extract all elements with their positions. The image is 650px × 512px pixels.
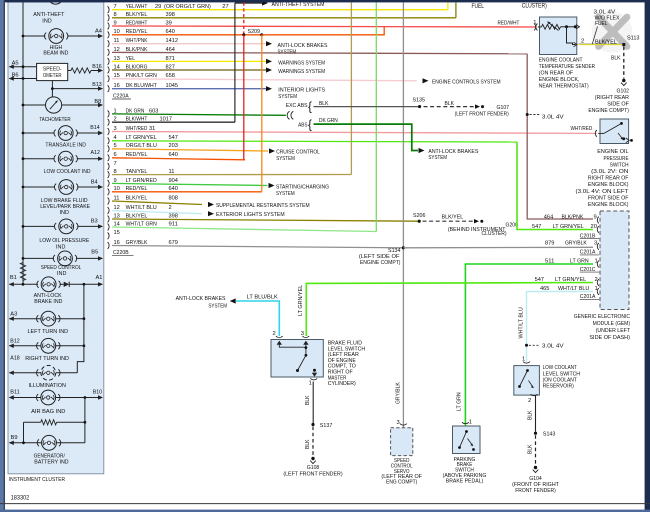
svg-text:3.0L 4V: 3.0L 4V [542,344,564,350]
svg-text:ANTI-LOCK BRAKES: ANTI-LOCK BRAKES [176,296,226,302]
svg-text:BLK/PNK: BLK/PNK [562,214,584,220]
svg-text:S143: S143 [543,431,556,437]
svg-text:C220A: C220A [113,94,129,100]
svg-text:B11: B11 [10,390,19,396]
svg-text:IND: IND [57,271,66,277]
svg-text:BLK/YEL: BLK/YEL [442,214,465,220]
svg-text:27: 27 [222,4,228,10]
svg-text:ENGINE BLOCK): ENGINE BLOCK) [588,182,629,188]
svg-text:CRUISE CONTROL: CRUISE CONTROL [276,150,320,156]
svg-text:{: { [308,120,312,132]
svg-text:RIGHT TURN IND: RIGHT TURN IND [25,356,69,362]
svg-text:S137: S137 [320,423,333,429]
svg-text:B10: B10 [93,390,102,396]
svg-text:1: 1 [469,420,472,426]
svg-text:ABS: ABS [298,122,308,128]
svg-text:A3: A3 [10,311,17,317]
svg-text:ANTI-THEFT: ANTI-THEFT [33,12,65,18]
svg-text:{: { [308,102,312,114]
svg-text:LT GRN: LT GRN [457,392,463,411]
svg-text:SYSTEM: SYSTEM [276,156,295,162]
svg-text:PRESSURE: PRESSURE [604,156,629,162]
svg-text:GENERIC ELECTRONIC: GENERIC ELECTRONIC [574,314,630,320]
svg-text:ILLUMINATION: ILLUMINATION [29,383,66,389]
svg-text:OMETER: OMETER [43,73,62,79]
svg-text:C220B: C220B [113,250,129,256]
svg-text:3: 3 [397,420,400,426]
svg-text:603: 603 [149,108,158,114]
svg-text:LT GRN/RED: LT GRN/RED [126,178,157,184]
svg-text:3: 3 [301,331,304,337]
svg-text:IND: IND [42,19,51,25]
svg-text:ENGINE COMPT): ENGINE COMPT) [588,108,629,114]
svg-text:B6: B6 [12,72,19,78]
svg-text:B5: B5 [91,249,98,255]
svg-text:398: 398 [169,213,178,219]
svg-text:BEAM IND: BEAM IND [43,51,68,57]
svg-text:S209: S209 [248,29,261,35]
svg-text:LOW COOLANT: LOW COOLANT [543,365,578,371]
svg-text:SYSTEM: SYSTEM [428,155,447,161]
svg-text:WARNINGS SYSTEM: WARNINGS SYSTEM [278,61,325,67]
svg-text:WHT/LT BLU: WHT/LT BLU [126,205,157,211]
svg-text:GRY/BLK: GRY/BLK [565,241,587,247]
svg-text:B13: B13 [92,82,101,88]
svg-text:LEVEL SWITCH: LEVEL SWITCH [543,371,580,377]
svg-text:464: 464 [544,214,554,220]
svg-text:679: 679 [169,240,178,246]
svg-text:2: 2 [595,277,598,283]
svg-text:B3: B3 [91,219,98,225]
svg-text:ANTI-THEFT SYSTEM: ANTI-THEFT SYSTEM [272,2,325,8]
svg-text:ENGINE OIL: ENGINE OIL [597,149,628,155]
svg-text:G107: G107 [497,105,510,111]
svg-text:2: 2 [169,205,172,211]
svg-text:RESERVOIR): RESERVOIR) [543,384,574,390]
svg-text:EXTERIOR LIGHTS SYSTEM: EXTERIOR LIGHTS SYSTEM [216,212,285,218]
svg-text:LT GRN/YEL: LT GRN/YEL [298,285,304,316]
svg-text:A18: A18 [10,356,19,362]
svg-text:A5: A5 [12,61,19,67]
svg-text:B1: B1 [10,275,17,281]
svg-text:NEAR THERMOSTAT): NEAR THERMOSTAT) [539,84,589,90]
svg-text:BLK: BLK [445,101,455,107]
svg-text:BLK/YEL: BLK/YEL [595,39,618,45]
svg-text:LOW OIL PRESSURE: LOW OIL PRESSURE [39,238,89,244]
svg-text:TEMPERATURE SENDER: TEMPERATURE SENDER [539,64,595,70]
svg-text:LOW COOLANT IND: LOW COOLANT IND [44,169,91,175]
svg-text:B9: B9 [11,435,18,441]
svg-text:ANTI-LOCK BRAKES: ANTI-LOCK BRAKES [278,43,328,49]
svg-text:WHT/LT GRN: WHT/LT GRN [126,221,157,227]
svg-text:(LEFT FRONT FENDER): (LEFT FRONT FENDER) [455,112,509,118]
svg-text:SYSTEM: SYSTEM [276,191,295,197]
svg-text:(ON COOLANT: (ON COOLANT [543,378,578,384]
svg-text:TACHOMETER: TACHOMETER [39,117,70,123]
svg-text:(ON REAR OF: (ON REAR OF [539,71,574,77]
svg-text:INSTRUMENT CLUSTER: INSTRUMENT CLUSTER [9,477,65,483]
svg-text:CLUSTER): CLUSTER) [482,231,507,237]
svg-text:SIDE OF: SIDE OF [607,102,629,108]
svg-text:7: 7 [114,161,117,167]
svg-text:808: 808 [169,195,178,201]
svg-text:MODULE (GEM): MODULE (GEM) [593,321,631,327]
svg-text:BATTERY IND: BATTERY IND [34,459,68,465]
svg-text:WARNINGS SYSTEM: WARNINGS SYSTEM [278,69,325,75]
svg-text:ORG/LT BLU: ORG/LT BLU [126,143,157,149]
svg-text:A4: A4 [95,28,102,34]
svg-text:STARTING/CHARGING: STARTING/CHARGING [276,185,329,191]
svg-text:BLK/YEL: BLK/YEL [126,195,148,201]
svg-text:BRAKE IND: BRAKE IND [34,299,62,305]
svg-text:B12: B12 [10,338,19,344]
svg-text:A1: A1 [96,275,103,281]
svg-text:3: 3 [594,241,597,247]
svg-text:B16: B16 [92,64,101,70]
svg-text:640: 640 [169,152,178,158]
svg-text:G102: G102 [617,88,630,94]
svg-text:IND: IND [60,210,69,216]
svg-text:(3.0L 4V: ON LEFT: (3.0L 4V: ON LEFT [576,189,630,195]
svg-text:GRY/BLK: GRY/BLK [396,382,402,404]
svg-text:B8: B8 [94,99,101,105]
svg-text:G104: G104 [529,476,542,482]
svg-text:(LEFT FRONT FENDER): (LEFT FRONT FENDER) [283,471,342,477]
svg-text:1: 1 [309,380,312,386]
svg-text:SYSTEM: SYSTEM [278,49,297,55]
svg-text:(OR ORG/LT GRN): (OR ORG/LT GRN) [164,4,211,10]
svg-text:658: 658 [166,73,175,79]
svg-text:RED/YEL: RED/YEL [126,152,148,158]
svg-text:(UNDER LEFT: (UNDER LEFT [596,328,631,334]
svg-text:3.0L 4V: 3.0L 4V [542,115,564,121]
svg-text:SYSTEM: SYSTEM [208,303,227,309]
svg-text:(3.0L 2V: ON: (3.0L 2V: ON [591,169,628,175]
svg-text:SIDE OF DASH): SIDE OF DASH) [589,335,630,341]
svg-text:203: 203 [169,143,178,149]
svg-text:ENGINE BLOCK): ENGINE BLOCK) [588,202,629,208]
svg-text:1: 1 [595,286,598,292]
svg-text:FUEL: FUEL [595,21,608,27]
svg-text:WHT/LT BLU: WHT/LT BLU [518,307,524,338]
svg-text:BRAKE PEDAL): BRAKE PEDAL) [446,478,483,484]
svg-text:WHT/RED: WHT/RED [571,126,593,132]
svg-text:EXC ABS: EXC ABS [286,103,308,109]
svg-text:2: 2 [528,398,531,404]
svg-text:RED/WHT: RED/WHT [498,20,520,26]
svg-text:ENGINE COMPT): ENGINE COMPT) [360,260,401,266]
svg-text:G108: G108 [307,465,320,471]
svg-text:464: 464 [166,47,175,53]
svg-text:2: 2 [273,331,276,337]
svg-text:LT BLU/BLK: LT BLU/BLK [247,294,278,300]
svg-text:BLK: BLK [305,439,311,449]
svg-text:ENGINE BLOCK,: ENGINE BLOCK, [539,77,580,83]
svg-text:BLK: BLK [528,444,534,454]
svg-text:2: 2 [581,38,584,44]
svg-text:SYSTEM: SYSTEM [278,94,297,100]
svg-text:S206: S206 [413,213,426,219]
svg-text:AIR BAG IND: AIR BAG IND [31,409,65,415]
svg-text:SWITCH: SWITCH [610,162,629,168]
svg-text:TRANSAXLE IND: TRANSAXLE IND [45,142,86,148]
svg-text:879: 879 [545,241,554,247]
svg-text:B4: B4 [91,179,98,185]
svg-text:ENGINE CONTROLS SYSTEM: ENGINE CONTROLS SYSTEM [432,80,501,86]
svg-text:183302: 183302 [11,495,30,501]
svg-text:9: 9 [594,214,597,220]
svg-text:911: 911 [169,221,178,227]
svg-text:ENG COMPT): ENG COMPT) [386,480,417,486]
svg-text:S135: S135 [413,98,426,104]
svg-text:15: 15 [114,230,120,236]
svg-text:RIGHT REAR OF: RIGHT REAR OF [588,176,629,182]
svg-text:BLK: BLK [611,56,621,62]
svg-text:547: 547 [169,135,178,141]
svg-text:ENGINE COOLANT: ENGINE COOLANT [539,58,583,64]
svg-text:ANTI-LOCK BRAKES: ANTI-LOCK BRAKES [428,149,478,155]
svg-text:CLUSTER): CLUSTER) [522,3,547,9]
svg-text:A12: A12 [91,150,100,156]
svg-text:1: 1 [595,258,598,264]
svg-text:LEFT TURN IND: LEFT TURN IND [28,329,69,335]
svg-text:IND: IND [56,244,65,250]
svg-text:B14: B14 [90,125,99,131]
svg-text:S113: S113 [627,36,640,42]
svg-text:SPEED-: SPEED- [43,66,62,72]
svg-text:INTERIOR LIGHTS: INTERIOR LIGHTS [278,88,325,94]
svg-text:FRONT FENDER): FRONT FENDER) [515,488,556,494]
svg-text:(RIGHT REAR: (RIGHT REAR [595,95,629,101]
svg-text:BLK: BLK [305,395,311,405]
svg-text:BLK: BLK [528,410,534,420]
svg-text:FUEL: FUEL [472,4,485,10]
svg-text:CYLINDER): CYLINDER) [328,381,356,387]
svg-text:SUPPLEMENTAL RESTRAINTS SYSTEM: SUPPLEMENTAL RESTRAINTS SYSTEM [216,203,310,209]
svg-text:FRONT SIDE OF: FRONT SIDE OF [588,195,629,201]
svg-text:904: 904 [169,178,178,184]
